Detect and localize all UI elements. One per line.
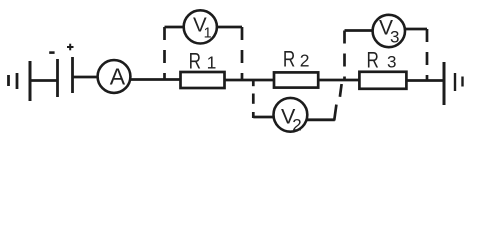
svg-text:R: R: [189, 49, 201, 74]
svg-text:R: R: [283, 48, 295, 73]
svg-text:3: 3: [387, 53, 396, 72]
svg-text:2: 2: [300, 51, 310, 71]
svg-text:A: A: [110, 63, 126, 89]
svg-text:1: 1: [207, 52, 217, 72]
svg-text:3: 3: [390, 28, 399, 47]
svg-text:R: R: [367, 49, 379, 74]
svg-text:2: 2: [292, 116, 301, 135]
svg-text:1: 1: [204, 26, 212, 42]
